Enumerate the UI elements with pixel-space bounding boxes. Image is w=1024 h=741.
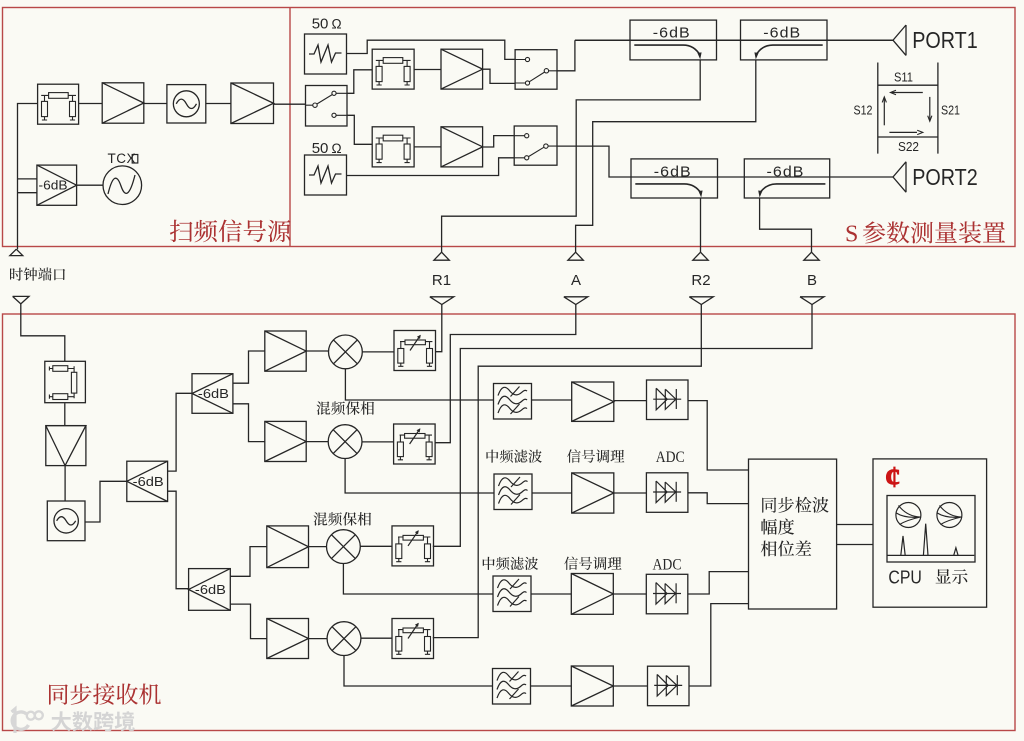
wire: pad Z2 to amplifier A3 — [414, 69, 441, 71]
variable attenuator AT3 — [394, 424, 436, 464]
label ADC (lower) — [653, 556, 682, 573]
svg-text:PORT1: PORT1 — [912, 27, 978, 53]
label 时钟端口 — [10, 267, 65, 280]
frequency doubler U1 (triangle down) — [46, 426, 86, 466]
pi attenuator pad Z1 — [38, 84, 79, 124]
wire: M2 to attenuator AT3 — [362, 441, 394, 443]
wire: mixer M1 IF out to filter F1 — [345, 369, 493, 400]
wire: R2 node to attenuator AT5 — [433, 305, 702, 638]
display trace baseline and pulses — [887, 524, 974, 556]
svg-text:50: 50 — [312, 16, 329, 33]
amplifier A9 — [572, 382, 614, 421]
label 幅度 — [761, 519, 794, 535]
port symbol: R1 out (triangle up) — [434, 252, 449, 260]
amplifier A7 (LO row3) — [267, 526, 309, 568]
wire: mixer M4 IF out to filter F4 — [344, 656, 493, 687]
local oscillator G3 — [47, 501, 85, 541]
flow graph arrow S12 (left, upwards) — [882, 97, 886, 125]
wire: A8 to mixer M4 — [309, 638, 328, 640]
label 中频滤波 (upper) — [486, 450, 541, 463]
switch S3 (PORT2 select) — [514, 126, 557, 165]
switch S1 (SPDT after A2) — [306, 86, 348, 127]
red label 扫频信号源 — [170, 219, 291, 242]
wire: S1 lower throw to pad Z3 — [347, 115, 372, 144]
IF filter F2 — [494, 474, 532, 510]
svg-text:Ω: Ω — [332, 17, 342, 32]
svg-text:S: S — [845, 222, 858, 248]
amplifier A1 — [102, 83, 144, 123]
detector D1 — [647, 380, 689, 420]
port symbol: B out (triangle up) — [804, 252, 819, 260]
connector R1 in (triangle down) — [430, 297, 454, 305]
CPU display block U3 — [873, 459, 987, 607]
wire: amplifier A2 to switch S1 — [274, 103, 306, 105]
label S21 — [941, 103, 960, 118]
svg-text:-6dB: -6dB — [39, 178, 68, 193]
label 中频滤波 (lower) — [483, 557, 538, 570]
terminator 50ohm R_L1 — [305, 34, 347, 74]
wire: SP1 upper out to splitter SP2 — [168, 393, 192, 471]
svg-text:-6dB: -6dB — [763, 25, 801, 42]
label S22 — [898, 139, 919, 154]
wire: DC2 coupled port to A node — [576, 60, 756, 252]
port symbol: sweep source clock output (triangle up) — [10, 249, 23, 255]
wire: pad Z3 to amplifier A4 — [414, 146, 441, 148]
label S11 — [894, 70, 913, 85]
label 显示 — [936, 569, 968, 584]
amplifier A12 — [571, 666, 613, 706]
wire: A6 to mixer M2 — [306, 441, 328, 443]
wire: mixer M2 IF out to filter F2 — [345, 459, 494, 494]
svg-text:B: B — [807, 272, 817, 289]
connector PORT1 — [893, 25, 906, 55]
svg-text:S12: S12 — [854, 103, 873, 118]
svg-text:CPU: CPU — [888, 567, 922, 588]
svg-text:¢: ¢ — [885, 459, 901, 494]
pi attenuator pad Z3 — [372, 127, 414, 167]
wire: sync detector to CPU (bus upper) — [837, 524, 873, 526]
watermark text 大数跨境 — [51, 711, 134, 731]
wire: A10 to detector D2 — [614, 492, 647, 494]
wire: doubler to oscillator G3 — [64, 466, 66, 501]
IF filter F3 — [493, 576, 531, 612]
label ADC (upper) — [656, 449, 685, 466]
IF filter F4 — [493, 669, 531, 705]
label 相位差 — [761, 540, 811, 556]
label TCXO — [108, 151, 138, 166]
svg-text:S22: S22 — [898, 139, 919, 154]
wire: mixer M3 IF out to filter F3 — [343, 564, 493, 595]
flow graph arrow S11 (top, leftwards) — [890, 90, 922, 94]
flow graph arrow S21 (right, downwards) — [928, 97, 932, 121]
wire: input bus left (node to pi pad, -6dB taps, ground) — [18, 104, 38, 250]
wire: SP2 lower out to amplifier A6 — [233, 404, 265, 442]
red frame: synchronous receiver section box — [3, 314, 1016, 731]
svg-text:-6dB: -6dB — [767, 163, 805, 180]
wire: D2 to sync detector (input 2) — [688, 493, 749, 504]
label 信号调理 (upper) — [567, 449, 624, 462]
mixer M2 — [328, 425, 362, 459]
wire: A12 to detector D4 — [613, 685, 647, 687]
red label 同步接收机 — [49, 683, 161, 704]
connector clock in (triangle down) — [13, 296, 29, 304]
svg-text:ADC: ADC — [656, 449, 685, 466]
wire: amplifier A3 to switch S2 lower throw — [483, 69, 515, 83]
label R2 — [691, 272, 710, 289]
wire: SP1 lower out to splitter SP3 — [168, 491, 189, 589]
wire: SP3 lower out to amplifier A8 — [230, 604, 266, 639]
watermark logo — [12, 709, 43, 733]
directional coupler DC4 -6dB — [744, 159, 829, 198]
red frame: sweep source + S-parameter section box — [3, 8, 1016, 247]
power splitter SP3 -6dB — [189, 569, 231, 611]
wire: F4 to amplifier A12 — [531, 685, 572, 687]
label R1 — [432, 272, 451, 289]
svg-text:PORT2: PORT2 — [912, 164, 978, 190]
power splitter SP2 -6dB — [192, 374, 233, 414]
wire: S1 upper throw to pad Z2 — [347, 70, 372, 94]
svg-text:-6dB: -6dB — [133, 474, 164, 489]
switch S2 (PORT1 select) — [515, 50, 557, 89]
amplifier A8 (LO row4) — [267, 619, 309, 659]
svg-text:S21: S21 — [941, 103, 960, 118]
wire: SP3 upper out to amplifier A7 — [230, 547, 266, 577]
red divider between sweep source and S-parameter sections — [289, 8, 291, 247]
svg-text:-6dB: -6dB — [198, 386, 229, 401]
wire: clock connector to pad Z4 — [21, 304, 65, 361]
svg-text:-6dB: -6dB — [195, 582, 226, 597]
smith chart circle (left) — [896, 503, 921, 528]
label 混频保相 (lower) — [313, 512, 371, 526]
wire: M4 to attenuator AT5 — [361, 637, 392, 639]
wire: PORT1 through-line to PORT1 — [575, 39, 893, 41]
label CPU — [888, 567, 922, 588]
directional coupler DC2 -6dB — [741, 20, 828, 60]
power splitter SP1 -6dB — [127, 461, 168, 501]
wire: DC1 coupled port to R1 node — [442, 60, 701, 252]
wire: sync detector to CPU (bus lower) — [837, 544, 873, 546]
directional coupler DC1 -6dB — [630, 20, 717, 60]
wire: switch S3 common to PORT2 through-line — [557, 146, 893, 177]
wire: A node to attenuator AT3 — [436, 305, 576, 443]
amplifier A10 — [572, 473, 614, 513]
label A — [571, 272, 581, 289]
wire: oscillator G3 to splitter SP1 — [85, 481, 127, 522]
label 同步检波 — [762, 497, 829, 513]
label 混频保相 (upper) — [316, 401, 374, 415]
wire: SP2 upper out to amplifier A5 — [233, 351, 265, 383]
connector PORT2 — [893, 162, 906, 192]
amplifier A5 (LO row1) — [265, 331, 306, 371]
IF filter F1 — [494, 384, 532, 420]
smith chart circle (right) — [937, 503, 962, 528]
wire: pad Z4 to doubler — [64, 403, 66, 425]
wire: M3 to attenuator AT4 — [360, 545, 392, 547]
wire: switch S2 common up to PORT1 through-line — [557, 40, 575, 71]
red label S 参数测量装置 — [845, 221, 1005, 247]
oscillator G1 (swept source) — [167, 85, 206, 123]
pi attenuator pad Z4 (rotated) — [45, 361, 86, 402]
variable attenuator AT5 — [392, 619, 434, 659]
detector D4 — [648, 666, 690, 706]
label B — [807, 272, 817, 289]
directional coupler DC3 -6dB — [631, 159, 718, 198]
wire: F2 to amplifier A10 — [532, 492, 572, 494]
display screen frame — [887, 496, 975, 563]
wire: 50ohm R_L2 to switch S3 lower throw — [347, 158, 515, 176]
terminator 50ohm R_L2 — [305, 155, 347, 195]
amplifier A3 — [441, 49, 483, 89]
wire: DC3 coupled port to R2 node — [700, 198, 702, 252]
connector A in (triangle down) — [564, 297, 588, 305]
detector D2 — [646, 473, 688, 513]
svg-text:-6dB: -6dB — [653, 25, 691, 42]
svg-text:A: A — [571, 272, 581, 289]
wire: DC4 coupled port to B node — [760, 198, 812, 252]
label S12 — [854, 103, 873, 118]
amplifier A11 — [571, 574, 613, 615]
wire: oscillator G1 to amplifier A2 — [206, 103, 231, 105]
wire: F3 to amplifier A11 — [531, 593, 571, 595]
wire: amplifier A1 to oscillator G1 — [144, 103, 167, 105]
attenuator -6dB AT1 — [37, 165, 77, 205]
port symbol: R2 out (triangle up) — [693, 252, 708, 260]
label 信号调理 (lower) — [564, 556, 621, 569]
svg-text:Ω: Ω — [332, 141, 342, 156]
wire: R1 node to attenuator AT2 — [436, 305, 442, 352]
wire: F1 to amplifier A9 — [532, 399, 572, 401]
mixer M1 — [329, 335, 363, 369]
wire: D4 to sync detector (input 4) — [689, 604, 749, 686]
mixer M4 — [327, 622, 361, 656]
amplifier A4 — [441, 127, 483, 167]
pi attenuator pad Z2 — [372, 49, 414, 89]
wire: A9 to detector D1 — [614, 400, 647, 402]
wire: D1 to sync detector (input 1) — [688, 401, 749, 470]
S-parameter flow graph frame — [878, 63, 938, 154]
wire: AT1 output to TCXO — [77, 184, 103, 186]
wire: A7 to mixer M3 — [309, 546, 327, 548]
svg-text:-6dB: -6dB — [654, 163, 692, 180]
svg-text:R2: R2 — [691, 272, 710, 289]
flow graph arrow S22 (bottom, rightwards) — [889, 130, 922, 134]
variable attenuator AT4 — [392, 526, 434, 566]
label PORT2 — [912, 164, 978, 190]
amplifier A6 (LO row2) — [265, 421, 306, 461]
wire: pad Z1 to amplifier A1 — [79, 103, 103, 105]
sync detector block U2 — [749, 459, 837, 609]
detector D3 — [646, 574, 688, 614]
wire: 50ohm R_L1 to switch S2 upper throw — [347, 40, 516, 59]
variable attenuator AT2 — [394, 331, 436, 371]
label PORT1 — [912, 27, 978, 53]
connector R2 in (triangle down) — [689, 297, 713, 305]
TCXO reference oscillator G2 — [103, 166, 142, 205]
wire: B node to attenuator AT4 — [433, 305, 812, 547]
svg-text:ADC: ADC — [653, 556, 682, 573]
wire: amplifier A4 to switch S3 upper throw — [483, 136, 515, 147]
svg-text:S11: S11 — [894, 70, 913, 85]
amplifier A2 — [231, 83, 274, 124]
connector B in (triangle down) — [800, 297, 824, 305]
port symbol: A out (triangle up) — [568, 252, 583, 260]
wire: A11 to detector D3 — [613, 593, 646, 595]
mixer M3 — [327, 530, 361, 564]
label 50 ohm (upper load) — [312, 16, 342, 33]
wire: D3 to sync detector (input 3) — [688, 572, 749, 594]
label 50 ohm (lower load) — [312, 140, 342, 157]
svg-text:R1: R1 — [432, 272, 451, 289]
red logo (cent mark) — [885, 459, 901, 494]
wire: M1 to attenuator AT2 — [362, 351, 394, 353]
wire: A5 to mixer M1 — [306, 350, 328, 352]
